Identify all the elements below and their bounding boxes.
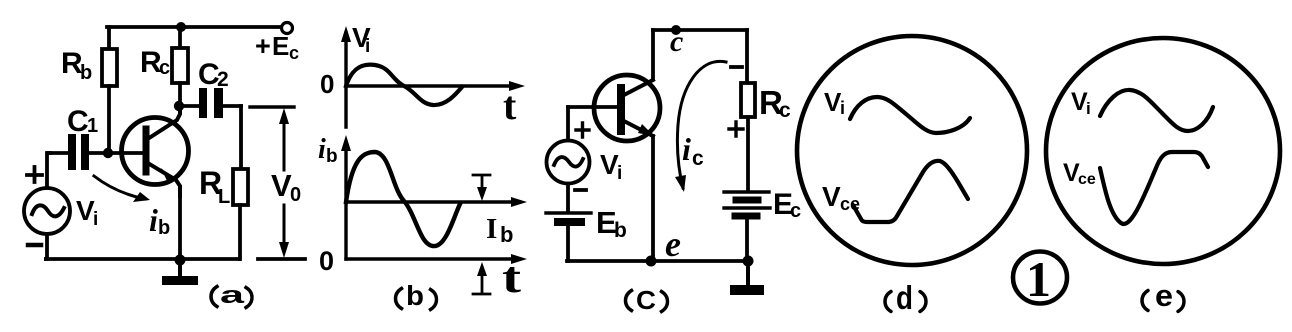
node dot base junction <box>103 148 113 158</box>
transistor Q2 base lead <box>568 105 617 109</box>
label Rc <box>140 46 170 79</box>
label (a) <box>211 287 217 307</box>
label 0 lower (b) <box>319 246 334 276</box>
label (e) <box>1142 291 1148 311</box>
label (c) <box>626 291 632 311</box>
label Rc (c) <box>759 84 791 122</box>
Vi waveform (d) <box>850 97 970 133</box>
ib sine wave (b) <box>346 152 460 246</box>
axis ib horizontal (b) <box>346 200 517 203</box>
svg-text:E: E <box>272 31 289 61</box>
battery Eb short thick plate <box>558 218 581 226</box>
label C2 <box>198 58 229 91</box>
transistor Q1 circle <box>122 118 189 185</box>
source Vi circle (c) <box>547 141 590 184</box>
label ic (c) <box>682 131 704 170</box>
label (b) <box>396 289 402 309</box>
svg-text:0: 0 <box>320 69 334 99</box>
label Vi (e) <box>1071 88 1091 118</box>
node dot collector junction <box>174 101 184 111</box>
label Vo <box>271 168 301 206</box>
ground (c) <box>746 261 750 286</box>
label Vce (d) <box>822 181 860 214</box>
svg-text:a: a <box>220 282 245 309</box>
wire top supply rail (a) <box>107 25 281 29</box>
svg-text:C: C <box>67 105 89 138</box>
axis vi vertical (b) <box>344 33 347 127</box>
svg-text:0: 0 <box>290 184 301 206</box>
label Ec (c) <box>773 188 801 222</box>
transistor Q2 collector lead <box>622 80 653 96</box>
label Rb <box>61 47 92 84</box>
resistor R_L <box>239 106 243 169</box>
sine symbol inside Vi (a) <box>32 205 64 216</box>
label t lower (b) <box>502 253 521 302</box>
svg-text:b: b <box>80 62 92 84</box>
ic current arrow (c) <box>677 61 726 188</box>
svg-text:i: i <box>93 209 98 230</box>
label e node <box>665 224 681 264</box>
transistor Q1 collector lead <box>146 106 180 140</box>
Ib offset arrow upper <box>473 174 490 177</box>
label Vi (d) <box>824 87 845 118</box>
svg-text:i: i <box>840 98 845 118</box>
wire emitter vertical (c) <box>651 136 655 262</box>
ib current arrow (a) <box>94 176 145 199</box>
Vce waveform (e) <box>1100 152 1208 224</box>
Vo dimension arrow bottom <box>283 205 286 250</box>
ground (a) <box>178 260 182 277</box>
transistor Q1 emitter lead with arrow <box>146 162 180 196</box>
svg-text:e: e <box>1155 278 1173 313</box>
wire Vi bottom to battery (c) <box>566 184 570 212</box>
svg-text:c: c <box>670 25 683 58</box>
bottom zero line (b) <box>346 257 517 260</box>
oscilloscope circle (e) <box>1046 38 1280 264</box>
node dot c <box>671 25 681 35</box>
label c node <box>670 25 683 58</box>
resistor Rc (c) <box>745 30 749 83</box>
axis ib vertical (b) <box>344 143 347 259</box>
label Eb <box>596 205 627 242</box>
svg-text:c: c <box>159 57 170 79</box>
svg-text:1: 1 <box>87 115 98 137</box>
wire collector vertical (c) <box>651 30 655 78</box>
svg-text:+: + <box>255 31 271 61</box>
label C1 <box>67 105 98 138</box>
label ib (a) <box>149 202 170 239</box>
transistor Q1 base bar <box>143 129 150 172</box>
battery Ec plates <box>724 190 769 193</box>
label +Ec <box>255 31 299 63</box>
vi sine wave (b) <box>346 65 462 105</box>
transistor Q2 circle <box>594 75 660 141</box>
Ib offset arrow lower <box>473 293 490 296</box>
plus sign Vi (c) <box>576 123 589 137</box>
svg-text:e: e <box>665 224 681 264</box>
svg-text:V: V <box>271 168 292 203</box>
node dot emitter/ground <box>175 255 186 266</box>
wire bottom rail (c) <box>567 259 749 263</box>
label t upper (b) <box>503 83 517 128</box>
minus sign Rc top (c) <box>731 65 742 69</box>
Vo dimension arrow top <box>283 116 286 170</box>
wire Ec to ground node (c) <box>745 220 749 261</box>
battery Eb long plate <box>546 211 591 214</box>
svg-text:2: 2 <box>217 68 229 91</box>
node dot e <box>646 256 657 267</box>
label Vi (c) <box>600 149 622 184</box>
Vi waveform (e) <box>1100 90 1213 131</box>
svg-text:ce: ce <box>1078 171 1096 188</box>
label ib axis (b) <box>318 134 338 167</box>
svg-text:i: i <box>318 134 326 165</box>
Vo top reference line <box>250 105 294 108</box>
label 0 upper (b) <box>320 69 334 99</box>
svg-text:1: 1 <box>1026 251 1051 307</box>
svg-text:i: i <box>1086 99 1091 118</box>
svg-text:d: d <box>896 279 913 316</box>
label Ib <box>486 213 513 247</box>
svg-text:i: i <box>682 131 691 167</box>
circled figure number 1 <box>1013 251 1067 307</box>
svg-text:L: L <box>218 186 230 208</box>
transistor Q2 base bar <box>617 88 625 131</box>
svg-text:b: b <box>158 217 170 239</box>
emitter wire down <box>178 196 182 259</box>
oscilloscope circle (d) <box>797 36 1027 265</box>
svg-text:0: 0 <box>319 246 334 276</box>
Vce waveform (d) <box>853 161 968 222</box>
svg-text:I: I <box>486 213 497 245</box>
Vo bottom reference line <box>258 257 305 261</box>
label Vce (e) <box>1063 159 1096 188</box>
label RL <box>199 165 230 208</box>
minus sign Vi (a) <box>28 243 41 248</box>
minus sign Vi (c) <box>575 188 586 192</box>
sine symbol inside Vi (c) <box>554 157 583 167</box>
plus sign Rc bottom (c) <box>729 122 743 136</box>
capacitor C1 <box>48 151 68 155</box>
svg-text:i: i <box>617 163 622 184</box>
svg-text:c: c <box>289 43 299 63</box>
label (d) <box>885 292 891 312</box>
plus sign Vi (a) <box>27 167 42 182</box>
svg-text:b: b <box>326 146 338 167</box>
wire Vi bottom to rail <box>46 234 47 259</box>
wire top rail (c) <box>653 28 747 32</box>
svg-text:c: c <box>692 147 704 170</box>
svg-text:t: t <box>503 83 517 128</box>
svg-text:c: c <box>790 200 801 222</box>
label Vi axis (b) <box>352 22 371 57</box>
transistor Q2 emitter lead with arrow <box>622 120 653 136</box>
svg-text:b: b <box>406 280 424 311</box>
node dot rail/Rc junction <box>176 22 186 32</box>
wire Vi top to base (c) <box>566 107 570 140</box>
capacitor C2 <box>181 104 199 108</box>
svg-text:C: C <box>636 285 656 315</box>
wire bottom rail (a) <box>46 257 239 261</box>
svg-text:b: b <box>614 219 627 242</box>
resistor R_b <box>107 27 111 49</box>
svg-text:t: t <box>502 253 521 302</box>
svg-text:i: i <box>365 36 370 57</box>
svg-text:i: i <box>149 202 158 238</box>
axis vi horizontal (b) <box>346 84 516 87</box>
wire Vi to C1 <box>47 153 50 188</box>
svg-text:c: c <box>779 99 791 122</box>
wire Eb to rail (c) <box>566 226 570 261</box>
terminal +Ec open circle <box>282 23 293 34</box>
svg-text:b: b <box>500 222 513 247</box>
svg-text:V: V <box>822 181 841 212</box>
resistor R_c (a) <box>178 27 182 48</box>
label Vi (a) <box>76 195 98 230</box>
source Vi circle (a) <box>24 188 70 234</box>
node dot ground (c) <box>743 256 754 267</box>
